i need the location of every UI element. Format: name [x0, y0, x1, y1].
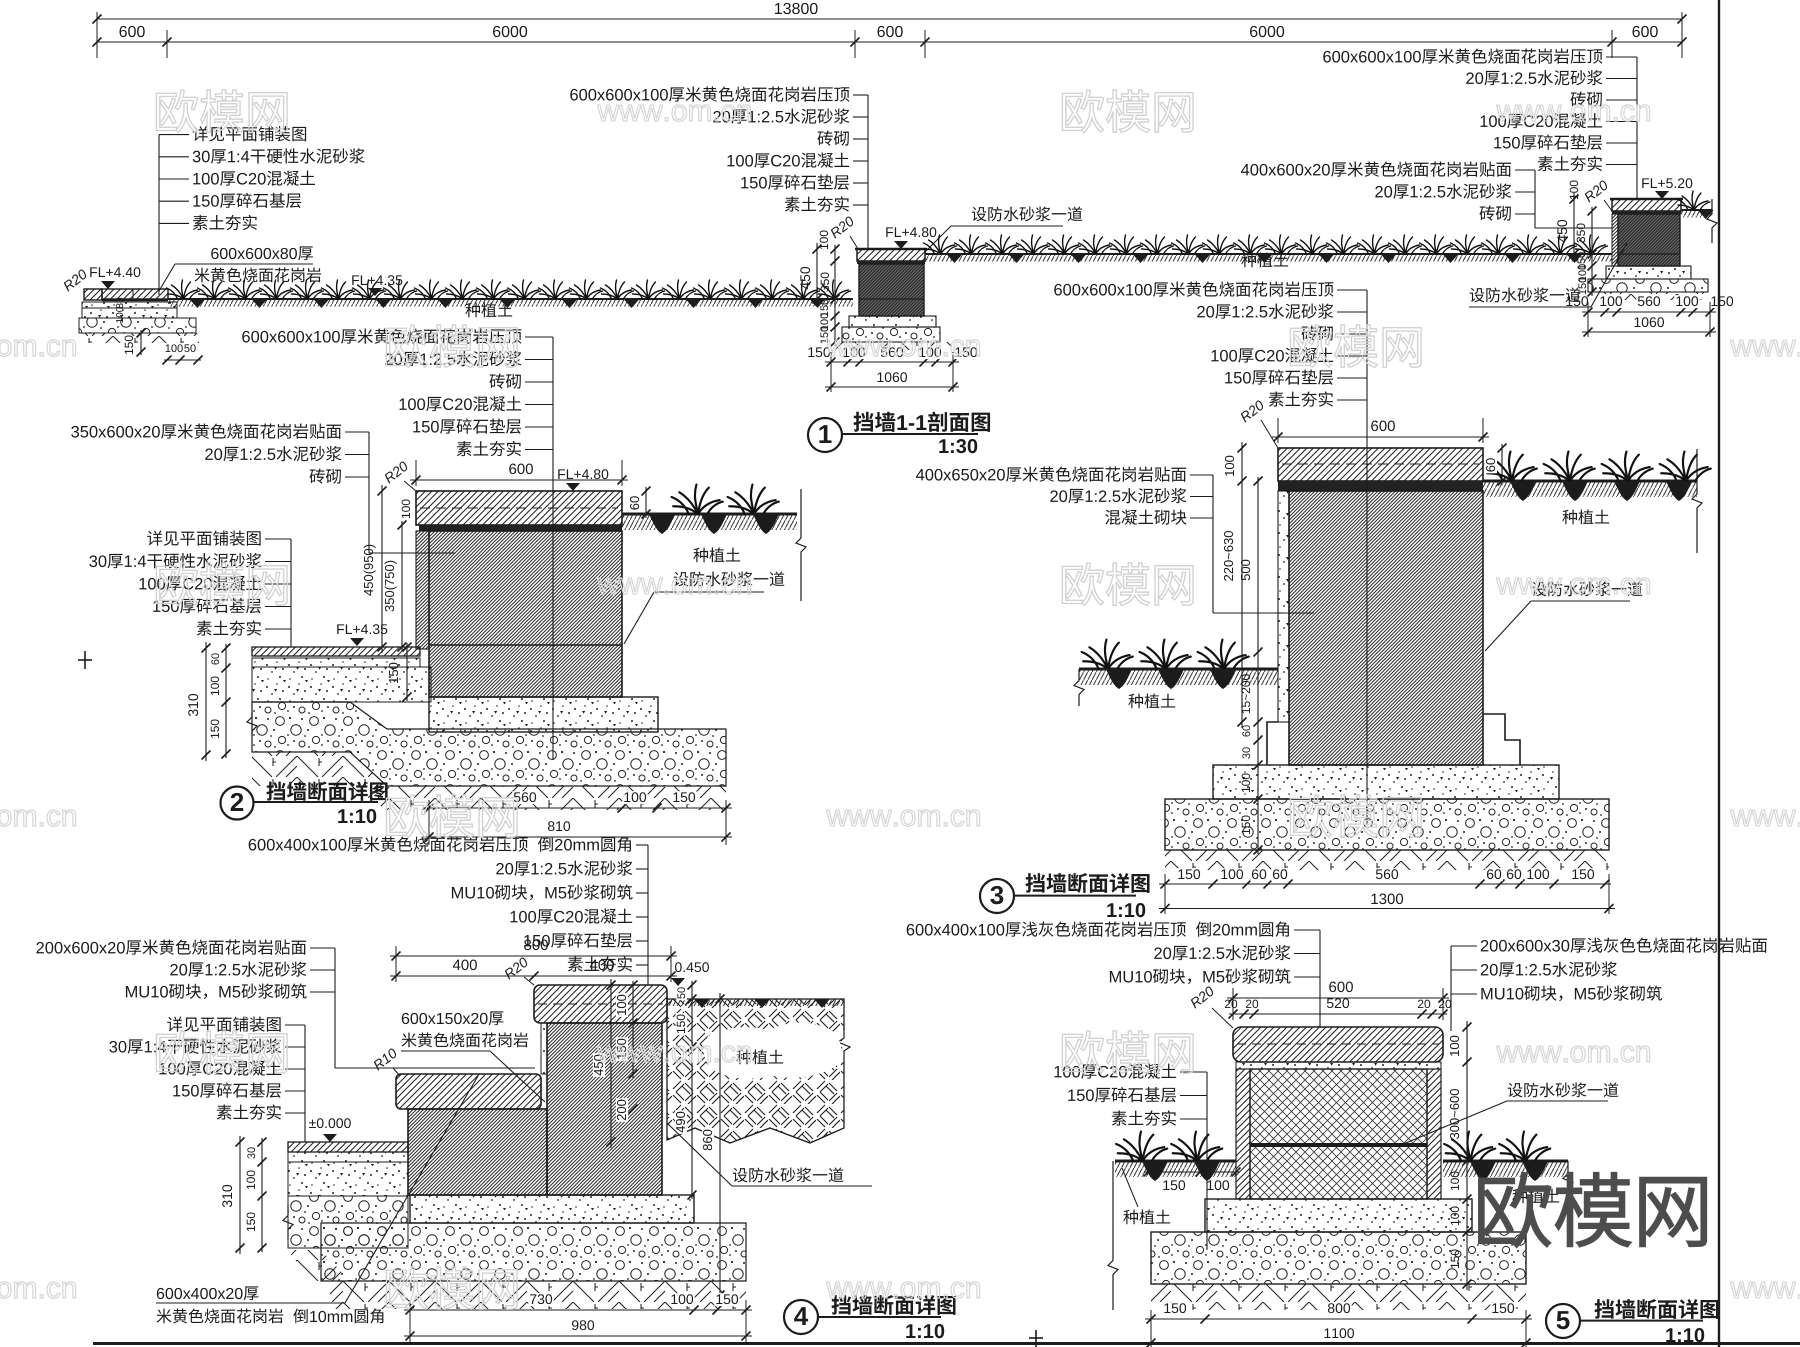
detail4 left vertical dims wall — [632, 981, 634, 1078]
detail3 footing concrete — [1213, 765, 1559, 799]
right pedestal earth — [1591, 292, 1710, 300]
detail3 earth — [1165, 850, 1609, 870]
detail4 wall upper body — [547, 1023, 662, 1195]
detail5 waterproof line — [1250, 1143, 1427, 1147]
annot detail5 left block — [1054, 1064, 1176, 1079]
right pedestal footing concrete — [1606, 266, 1691, 279]
watermarks light — [156, 90, 287, 133]
middle pedestal concrete footing — [849, 316, 936, 327]
annot detail4 top block — [249, 836, 631, 851]
annot detail2 facing — [71, 423, 341, 438]
section1 title — [808, 418, 842, 452]
left pavement small dims — [116, 298, 123, 308]
detail2 bottom dims — [423, 807, 732, 809]
watermark big dark — [1479, 1173, 1705, 1246]
detail3 title — [980, 879, 1014, 913]
right pedestal waterproof strip — [1612, 211, 1681, 214]
detail2 waterproof leader — [674, 571, 785, 586]
annot detail2 pavement layers — [147, 530, 260, 545]
detail2 right grade grass — [622, 513, 797, 516]
detail3 cap mortar — [1278, 481, 1483, 491]
detail2 cap mortar joint — [419, 525, 622, 531]
detail2 left dims pavement — [205, 642, 207, 761]
detail3 top dim 600 — [1272, 436, 1489, 438]
section1 top dimension chain 13800 — [97, 18, 1682, 20]
detail5 title — [1546, 1304, 1580, 1338]
detail4 lower seat cap — [396, 1074, 541, 1109]
detail4 top dims 800/400 — [390, 955, 677, 957]
fold mark left — [78, 659, 92, 661]
detail4 title — [784, 1300, 818, 1334]
detail4 footing concrete — [410, 1195, 694, 1223]
detail5 left grade dims — [1144, 1171, 1240, 1173]
detail3 left steps — [1267, 722, 1278, 765]
detail2 title — [221, 787, 254, 820]
middle pedestal compacted earth — [830, 342, 951, 350]
detail5 cap mortar — [1236, 1062, 1441, 1069]
sheet right border — [1718, 0, 1720, 1347]
annot detail2 wall layers top — [242, 328, 521, 343]
detail4 footing gravel — [321, 1223, 746, 1281]
detail2 wall body — [429, 531, 622, 697]
detail5 cap rounded — [1233, 1027, 1443, 1062]
planting soil label left — [465, 302, 512, 317]
detail4 planting soil region — [667, 999, 844, 1143]
detail5 gravel — [1151, 1232, 1526, 1284]
detail2 cap 600 granite coping — [416, 491, 622, 525]
detail5 earth — [1151, 1284, 1526, 1310]
waterproof leader right pedestal — [1470, 287, 1581, 302]
section1 left grade line with grass — [168, 298, 853, 300]
detail4 right dims — [691, 981, 693, 1199]
annot detail4 pavement block — [167, 1016, 280, 1031]
detail2 FL+4.35 — [337, 624, 387, 634]
right pedestal gravel — [1588, 279, 1708, 292]
detail3 cap — [1278, 448, 1483, 481]
right pedestal FL+5.20 — [1642, 178, 1692, 188]
fold mark bottom — [1035, 1330, 1037, 1347]
annot section1 left pavement layers — [193, 126, 306, 141]
detail5 inner body — [1250, 1069, 1427, 1199]
detail4 waterproof leader — [733, 1167, 844, 1182]
detail3 right grade — [1483, 480, 1697, 483]
detail3 left grade — [1079, 668, 1278, 671]
right pedestal right grade — [1681, 209, 1712, 211]
detail4 lower body — [408, 1109, 547, 1195]
sheet bottom border — [93, 1342, 1800, 1345]
right pedestal left dims — [1573, 193, 1575, 260]
detail5 bottom dims — [1145, 1318, 1532, 1320]
detail4 pavement level marker — [309, 1118, 351, 1128]
middle pedestal FL+4.80 — [886, 227, 936, 237]
annot right pedestal facing — [1241, 161, 1511, 176]
detail4 left dims pavement — [239, 1136, 241, 1254]
right pedestal facing strip — [1612, 214, 1618, 266]
detail2 right 150 dim — [406, 643, 408, 701]
section1 FL+4.40 level — [62, 268, 88, 291]
detail3 waterproof leader — [1532, 581, 1643, 596]
detail2 top dim 600 — [410, 479, 628, 481]
detail2 gravel layers — [252, 702, 726, 786]
detail2 wall vertical dims — [381, 485, 383, 653]
detail5 waterproof leader — [1508, 1082, 1619, 1097]
detail4 upper cap — [534, 985, 667, 1023]
detail4 pavement left — [288, 1142, 408, 1152]
detail3 facing strip — [1278, 491, 1289, 722]
detail5 left facing — [1236, 1069, 1250, 1199]
middle pedestal left dims — [816, 243, 818, 305]
annot detail4 riser label — [402, 1011, 504, 1025]
annot 600x600x80 granite — [211, 246, 313, 260]
detail5 right dims — [1466, 1021, 1468, 1290]
detail3 top annot layers — [1054, 281, 1333, 296]
detail3 gravel — [1165, 799, 1609, 850]
detail5 top dims — [1227, 997, 1449, 999]
middle pedestal waterproof strip — [857, 261, 925, 264]
detail4 earth hatch — [330, 1281, 746, 1309]
middle pedestal cap — [857, 249, 925, 261]
annot detail4 facing block — [36, 939, 306, 954]
section1 left pavement slabs — [84, 289, 102, 300]
detail2 earth hatch — [252, 752, 726, 810]
detail4 bottom dims — [404, 1309, 752, 1311]
annot detail5 right block — [1481, 937, 1767, 952]
annot middle pedestal layers — [570, 86, 849, 101]
right pedestal cap — [1612, 199, 1681, 211]
annot detail5 top left block — [907, 921, 1289, 936]
annot detail4 seat slab label — [157, 1286, 259, 1300]
right pedestal wall body — [1618, 214, 1680, 266]
middle pedestal gravel bed — [842, 327, 940, 342]
detail3 bottom dims — [1159, 883, 1611, 885]
detail3 right steps — [1483, 714, 1520, 765]
detail3 wall body — [1289, 491, 1483, 765]
detail2 right grade 60 dim — [645, 487, 647, 518]
detail2 left pavement — [252, 647, 420, 656]
middle pedestal bottom dims — [825, 361, 959, 363]
detail3 left annot facing — [916, 466, 1186, 481]
section1 middle grade grass line — [925, 253, 1612, 255]
detail2 wall facing strip — [416, 531, 429, 649]
detail5 soil labels — [1123, 1209, 1170, 1224]
detail5 grade lines — [1115, 1160, 1236, 1163]
detail4 upper facing strip — [541, 1023, 547, 1074]
right pedestal bottom dims — [1582, 311, 1716, 313]
waterproof leader middle — [972, 206, 1083, 221]
detail5 footing concrete — [1205, 1199, 1472, 1232]
detail4 0.450 level — [675, 962, 709, 972]
detail2 footing concrete — [429, 697, 658, 732]
detail2 FL+4.80 — [558, 469, 608, 479]
detail5 right facing — [1427, 1069, 1441, 1199]
middle pedestal wall body — [859, 264, 924, 316]
annot right pedestal layers — [1323, 48, 1602, 63]
detail3 left dims — [1241, 442, 1243, 728]
